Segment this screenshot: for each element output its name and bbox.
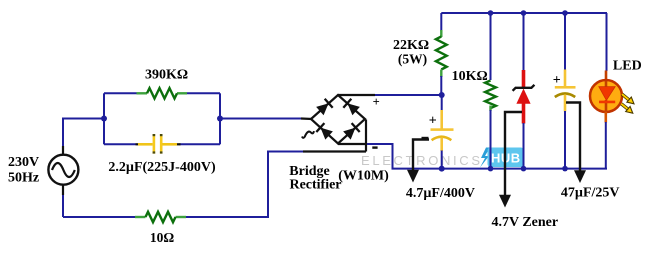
capacitor C3 47uF: [555, 13, 576, 169]
right vertex vertical: [365, 120, 367, 152]
wire: RC block to bridge: [220, 118, 301, 120]
svg-text:+: +: [429, 114, 437, 129]
svg-text:+: +: [553, 73, 561, 88]
svg-text:390KΩ: 390KΩ: [145, 67, 188, 82]
bridge rectifier BR1: [301, 95, 375, 152]
wire: left side of RC block: [103, 93, 105, 144]
svg-text:50Hz: 50Hz: [8, 170, 39, 185]
node at RC block left: [101, 116, 107, 122]
diode D3 bottom-left: [316, 123, 333, 140]
annotation arrow c2: [407, 140, 429, 183]
node c2 bottom: [439, 166, 445, 172]
node bridge+: [439, 92, 445, 98]
node 10K top: [488, 10, 494, 16]
svg-text:230V: 230V: [8, 155, 39, 170]
node zener top: [521, 10, 527, 16]
svg-text:10Ω: 10Ω: [150, 230, 175, 245]
diode D4 bottom-right: [343, 123, 360, 140]
wire: top branch of RC block: [104, 92, 137, 94]
zener diode Z1 4.7V: [513, 13, 535, 169]
wire: bottom rail left (AC to 10ohm to riser): [63, 216, 145, 218]
diamond outline: [311, 95, 365, 144]
capacitor C1 2.2uF: [136, 134, 181, 154]
AC source V1 230V 50Hz: [48, 146, 78, 195]
svg-text:Rectifier: Rectifier: [289, 178, 341, 193]
resistor R4 10K: [485, 13, 496, 169]
svg-text:4.7V Zener: 4.7V Zener: [491, 215, 558, 230]
led arrow 1: [622, 94, 634, 104]
wire: bridge dc- to bottom rail: [367, 144, 607, 169]
ac2 stub: [303, 150, 366, 152]
svg-text:+: +: [373, 95, 380, 109]
node 10K bottom: [488, 166, 494, 172]
svg-text:4.7µF/400V: 4.7µF/400V: [406, 186, 475, 201]
capacitor C2 4.7uF: [431, 95, 454, 169]
ac squiggle: [302, 131, 314, 138]
svg-text:LED: LED: [613, 58, 642, 73]
label minus bridge: [372, 146, 377, 148]
wire: right side of RC block: [219, 93, 221, 144]
resistor R2 10ohm: [135, 212, 186, 222]
resistor R3 22K: [436, 13, 447, 95]
label minus c2: [422, 137, 429, 139]
dc+ stub: [338, 94, 375, 96]
diode D2 top-right: [343, 99, 360, 116]
svg-text:10KΩ: 10KΩ: [452, 69, 488, 84]
wire: bridge dc+ to node: [375, 94, 442, 96]
annotation arrow zener: [499, 112, 522, 208]
wire: bottom branch of RC block: [104, 143, 136, 145]
node c3 top: [562, 10, 568, 16]
node at RC block right: [217, 116, 223, 122]
dc- stub: [338, 143, 367, 145]
watermark HUB badge: [480, 148, 524, 168]
LED D5: [590, 13, 634, 169]
svg-text:47µF/25V: 47µF/25V: [561, 185, 620, 200]
resistor R1 390K: [137, 88, 188, 98]
svg-text:2.2µF(225J-400V): 2.2µF(225J-400V): [108, 160, 216, 175]
input stub: [301, 117, 312, 120]
wire: AC source bottom vertical: [62, 194, 64, 217]
diode D1 top-left: [316, 99, 333, 116]
node zener bottom: [521, 166, 527, 172]
svg-text:ELECTRONICS: ELECTRONICS: [361, 153, 480, 168]
node c3 bottom: [562, 166, 568, 172]
wire: AC source top horizontal to RC block: [63, 119, 104, 148]
svg-text:(W10M): (W10M): [338, 169, 389, 184]
annotation arrow c3: [566, 103, 586, 184]
wire: top rail: [441, 12, 607, 14]
svg-text:(5W): (5W): [398, 51, 427, 66]
led arrow 2: [621, 104, 633, 113]
